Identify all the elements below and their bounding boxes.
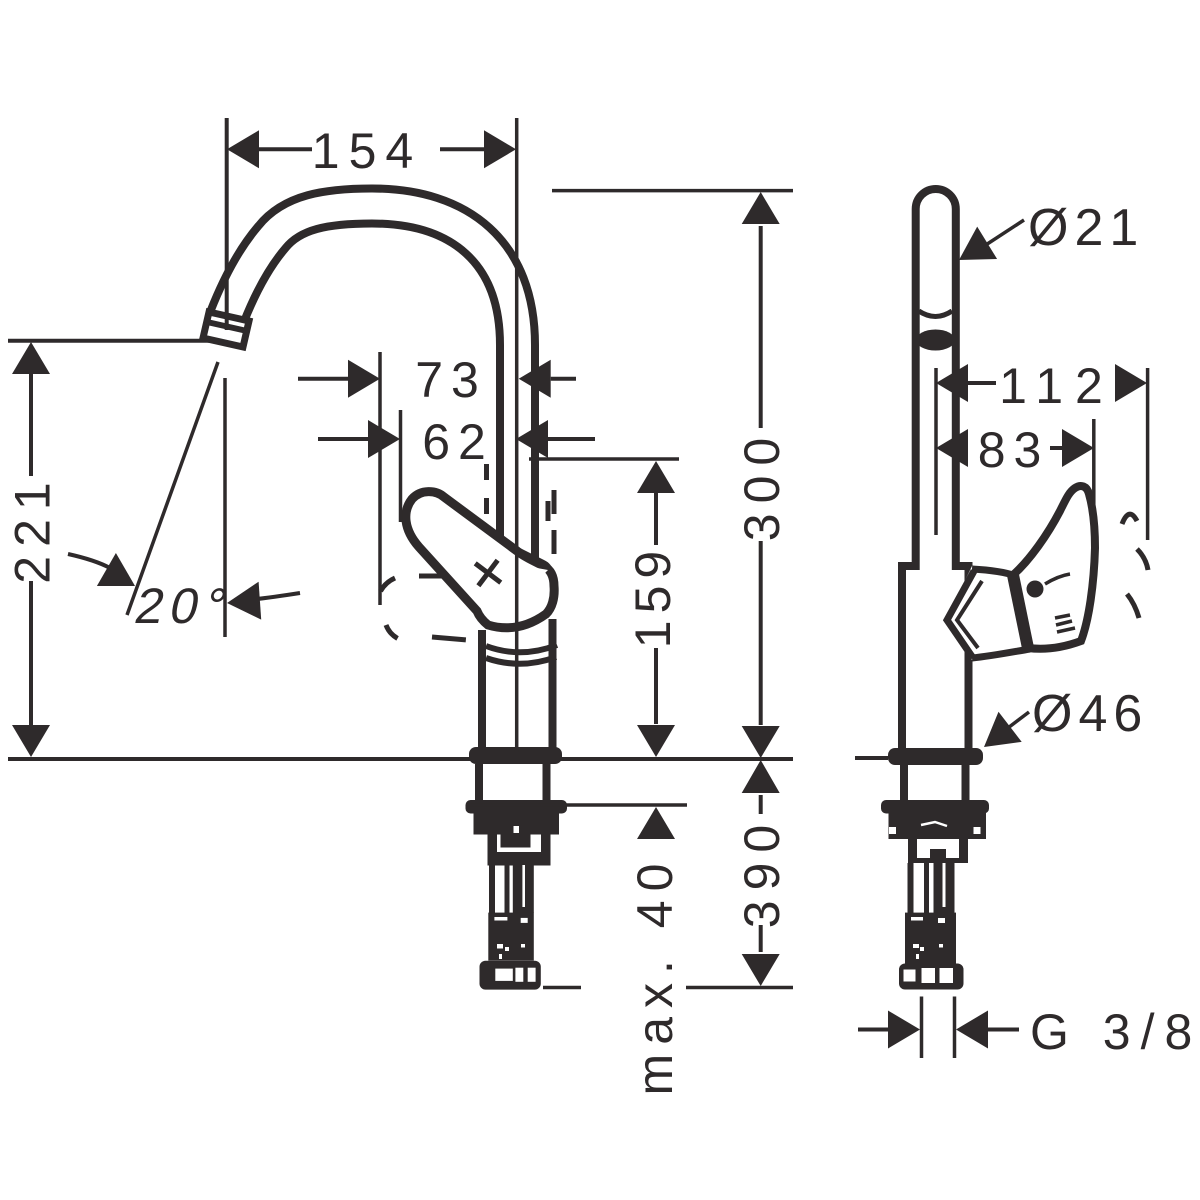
neck top edge: [972, 569, 1016, 576]
hose connector right view: [905, 913, 956, 964]
svg-text:221: 221: [5, 473, 61, 583]
handle pivot bar: [1013, 575, 1028, 648]
handle right view: neck white mask: [946, 566, 1030, 660]
pipe right view: [916, 189, 956, 570]
spout tube (left view): black outline stroke: [227, 206, 518, 610]
spout tube inner white: [227, 206, 518, 610]
bottom fitting right view: [899, 964, 964, 990]
hidden edge dashes beside pipe: [484, 464, 489, 536]
hoses right view: [908, 863, 914, 916]
aerator band: [916, 330, 955, 351]
base plate left view: [469, 747, 562, 764]
pivot dot: [1027, 581, 1044, 598]
neck bottom edge: [972, 649, 1030, 658]
svg-text:83: 83: [978, 422, 1050, 478]
20 degree indicator: [223, 378, 227, 637]
swivel ring 3: [486, 657, 556, 664]
plus symbol on handle: [466, 551, 511, 596]
hoses left view: [489, 865, 495, 916]
svg-text:300: 300: [734, 428, 790, 541]
handle inner contour: [1045, 574, 1070, 584]
handle horn detail: [512, 544, 552, 571]
hose connector left view: [488, 913, 534, 961]
counter surface line: [8, 757, 793, 761]
dim 390: [759, 795, 763, 814]
aerator line: [919, 311, 952, 317]
grip ridges: [1055, 615, 1075, 632]
dim 154: [225, 118, 229, 330]
lever handle (left view): [406, 492, 554, 628]
shank left view: [475, 764, 483, 802]
dim 73: [378, 352, 382, 605]
handle blade: [1013, 486, 1095, 649]
svg-text:62: 62: [422, 414, 494, 470]
dashed handle open position: [377, 576, 467, 641]
mounting nut right view: [881, 800, 989, 814]
svg-text:Ø46: Ø46: [1032, 685, 1148, 743]
dim 62: [399, 410, 403, 522]
svg-text:159: 159: [625, 544, 681, 648]
mounting nut left view: [466, 800, 568, 814]
dim 112: [934, 368, 938, 535]
dim dia 21: [975, 220, 1024, 252]
svg-text:G 3/8: G 3/8: [1030, 1004, 1200, 1060]
dim max 40: [470, 803, 687, 807]
svg-text:20°: 20°: [130, 578, 239, 634]
base plate right view: [888, 748, 983, 765]
spout height reference line 221: [8, 339, 211, 343]
body right view: [902, 566, 969, 756]
svg-text:390: 390: [734, 815, 790, 928]
dim 159: [529, 457, 679, 461]
shank right view: [900, 765, 908, 802]
svg-text:154: 154: [312, 123, 422, 179]
dim G 3/8: [920, 997, 924, 1059]
swivel ring 2: [486, 645, 557, 652]
svg-text:73: 73: [415, 352, 487, 408]
neck collar chevrons: [947, 571, 974, 658]
dim dia 46: [1000, 712, 1029, 734]
spout tip end cap: [203, 312, 249, 347]
body side walls: [478, 630, 486, 752]
body left view: white fill to mask pipe: [479, 600, 551, 756]
dim 221 vertical: [29, 346, 33, 476]
bottom fitting left view: [480, 961, 541, 990]
dim 83: [1092, 419, 1096, 547]
dashed swivel arcs: [1122, 514, 1148, 618]
svg-text:112: 112: [999, 358, 1115, 414]
dim 300: [552, 189, 793, 193]
svg-text:Ø21: Ø21: [1028, 199, 1144, 257]
svg-text:max. 40: max. 40: [627, 855, 683, 1096]
